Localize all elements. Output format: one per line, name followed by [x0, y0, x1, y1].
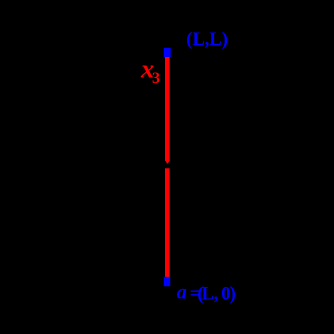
svg-text:a: a	[177, 282, 187, 304]
svg-text:(L,0): (L,0)	[197, 285, 235, 305]
arrowhead pointing down at midpoint	[165, 160, 170, 164]
node a=(L,0): blue square marker at bottom	[164, 277, 170, 286]
svg-text:(L,L): (L,L)	[186, 30, 228, 50]
svg-text:3: 3	[152, 70, 160, 87]
node (L,L): blue square marker at top	[164, 48, 171, 57]
wire: lower red segment of vertical line	[165, 168, 170, 277]
wire: upper red segment of vertical line	[165, 57, 170, 161]
